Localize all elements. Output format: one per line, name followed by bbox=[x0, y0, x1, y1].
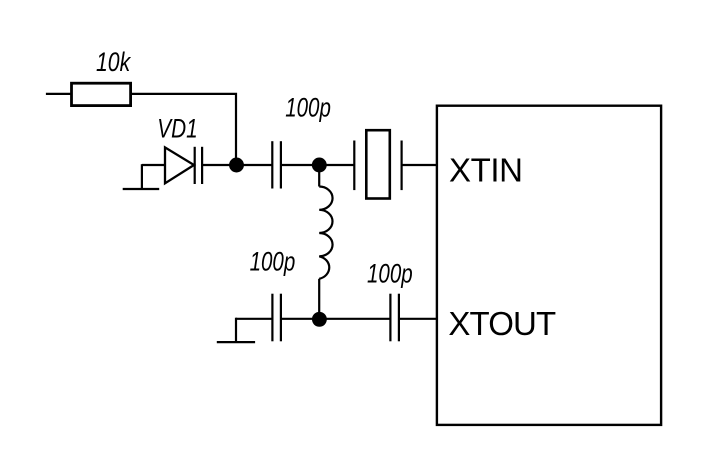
svg-text:100p: 100p bbox=[367, 260, 413, 289]
svg-text:100p: 100p bbox=[250, 248, 296, 277]
svg-text:100p: 100p bbox=[285, 94, 331, 123]
svg-text:XTOUT: XTOUT bbox=[448, 305, 556, 342]
svg-text:10k: 10k bbox=[96, 48, 131, 78]
svg-text:XTIN: XTIN bbox=[449, 151, 523, 188]
svg-text:VD1: VD1 bbox=[157, 114, 197, 144]
